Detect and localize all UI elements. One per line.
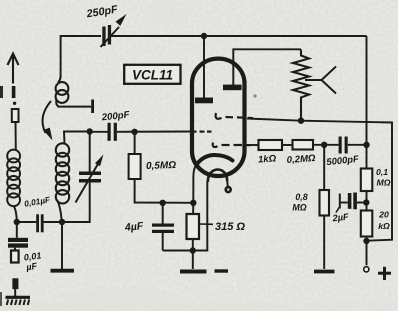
coupling arrow (43, 101, 51, 133)
resistor regeneration zigzag (293, 50, 309, 121)
svg-text:µF: µF (25, 261, 38, 273)
plug pin (12, 278, 18, 289)
svg-text:0,2MΩ: 0,2MΩ (286, 153, 316, 166)
grid triode dashes (192, 131, 212, 133)
capacitor 250pF (101, 14, 127, 47)
wire top rail left segment (61, 36, 101, 76)
coil L3 tuned coil (56, 143, 69, 203)
svg-text:20: 20 (378, 210, 389, 220)
resistor 20k (361, 211, 373, 237)
node zigzag bottom (298, 118, 304, 124)
grid g2 dashes (213, 143, 251, 148)
wire grid bias rail (247, 119, 392, 241)
wire top rail right segment (111, 35, 367, 37)
label 315 Ohm (199, 223, 213, 225)
edge speck bottom-left (0, 292, 2, 306)
wire (282, 144, 293, 146)
pencil dot (253, 94, 256, 97)
anode pentode plate (223, 85, 242, 91)
node 4uF (160, 200, 166, 206)
resistor 315 Ohm (192, 203, 194, 214)
anode pentode lead (233, 49, 301, 85)
ground earth hatched (6, 297, 31, 305)
tuning arrow (76, 163, 99, 203)
resistor 0.1M (361, 169, 373, 192)
node grid leak (131, 129, 137, 135)
tap terminal (91, 100, 94, 114)
svg-text:2µF: 2µF (331, 212, 349, 224)
node anode junction (201, 33, 207, 39)
svg-text:0,1: 0,1 (376, 167, 388, 177)
svg-text:4µF: 4µF (123, 220, 144, 234)
ground bar dash (215, 269, 229, 272)
filament terminal (226, 181, 229, 187)
svg-text:kΩ: kΩ (378, 221, 390, 231)
resistor 0.5M (134, 132, 136, 154)
svg-text:315 Ω: 315 Ω (215, 221, 245, 233)
cathode (197, 155, 233, 165)
cathode lead (193, 165, 196, 203)
grid g1 pentode dashes (216, 113, 253, 119)
wire (62, 221, 90, 222)
node bias bottom (363, 238, 369, 244)
capacitor 200pF (108, 123, 111, 141)
terminal plus (364, 267, 369, 272)
anode triode plate (195, 98, 213, 104)
wire grid rail (90, 131, 108, 133)
node coil2 bottom (59, 219, 65, 225)
ground bar cathode (180, 270, 207, 274)
wire coil to node (14, 206, 17, 222)
svg-text:VCL11: VCL11 (132, 68, 173, 83)
antenna coil L1 (7, 150, 20, 207)
capacitor 4uF (162, 203, 164, 224)
capacitor 0.01uF coupling (36, 214, 39, 232)
wire anode output (246, 144, 259, 146)
wire (348, 144, 367, 146)
svg-text:MΩ: MΩ (292, 203, 306, 213)
svg-text:MΩ: MΩ (376, 178, 390, 188)
wire right rail (366, 36, 368, 169)
capacitor 5000pF (339, 137, 342, 154)
tube VCL11 envelope (192, 59, 245, 176)
wire filament rail (163, 181, 208, 251)
node tuning cap top (87, 128, 93, 134)
antenna (8, 54, 19, 84)
node cathode resistor bottom (190, 247, 196, 253)
wire to tube grid (117, 131, 192, 133)
resistor 1k (259, 140, 283, 150)
wire coil bottom (57, 200, 62, 222)
coil L2 grid coil top (56, 76, 69, 107)
wire cathode rail (135, 202, 194, 203)
capacitor 2uF (339, 194, 341, 209)
label VCL11 (124, 65, 180, 84)
filament loop (208, 169, 227, 182)
svg-text:0,5MΩ: 0,5MΩ (146, 160, 177, 172)
node antenna/ground (14, 219, 20, 225)
resistor 0.8M (323, 145, 325, 190)
node cathode (190, 200, 196, 206)
ground bar under coil (51, 269, 75, 273)
capacitor 0.01uF to ground (16, 222, 18, 238)
arrow wiper (305, 67, 336, 94)
wire to ground (61, 222, 63, 269)
svg-text:0,8: 0,8 (295, 192, 307, 202)
wire coil top to grid rail (64, 132, 90, 144)
svg-text:1kΩ: 1kΩ (258, 153, 277, 165)
ground bar 0.8M (314, 270, 335, 274)
anode triode lead (203, 36, 205, 98)
edge speck left (0, 86, 3, 98)
antenna plug (12, 109, 19, 122)
resistor 0.2M (293, 140, 314, 150)
plug socket (11, 251, 19, 263)
wire (313, 144, 339, 146)
wire (44, 221, 90, 223)
node 2uF (363, 199, 369, 205)
wire coil tap (58, 106, 92, 108)
node 0.8M top (321, 142, 327, 148)
node output rail (363, 142, 369, 148)
variable capacitor tuning (89, 132, 91, 172)
wire bottom-left rail (17, 221, 37, 223)
